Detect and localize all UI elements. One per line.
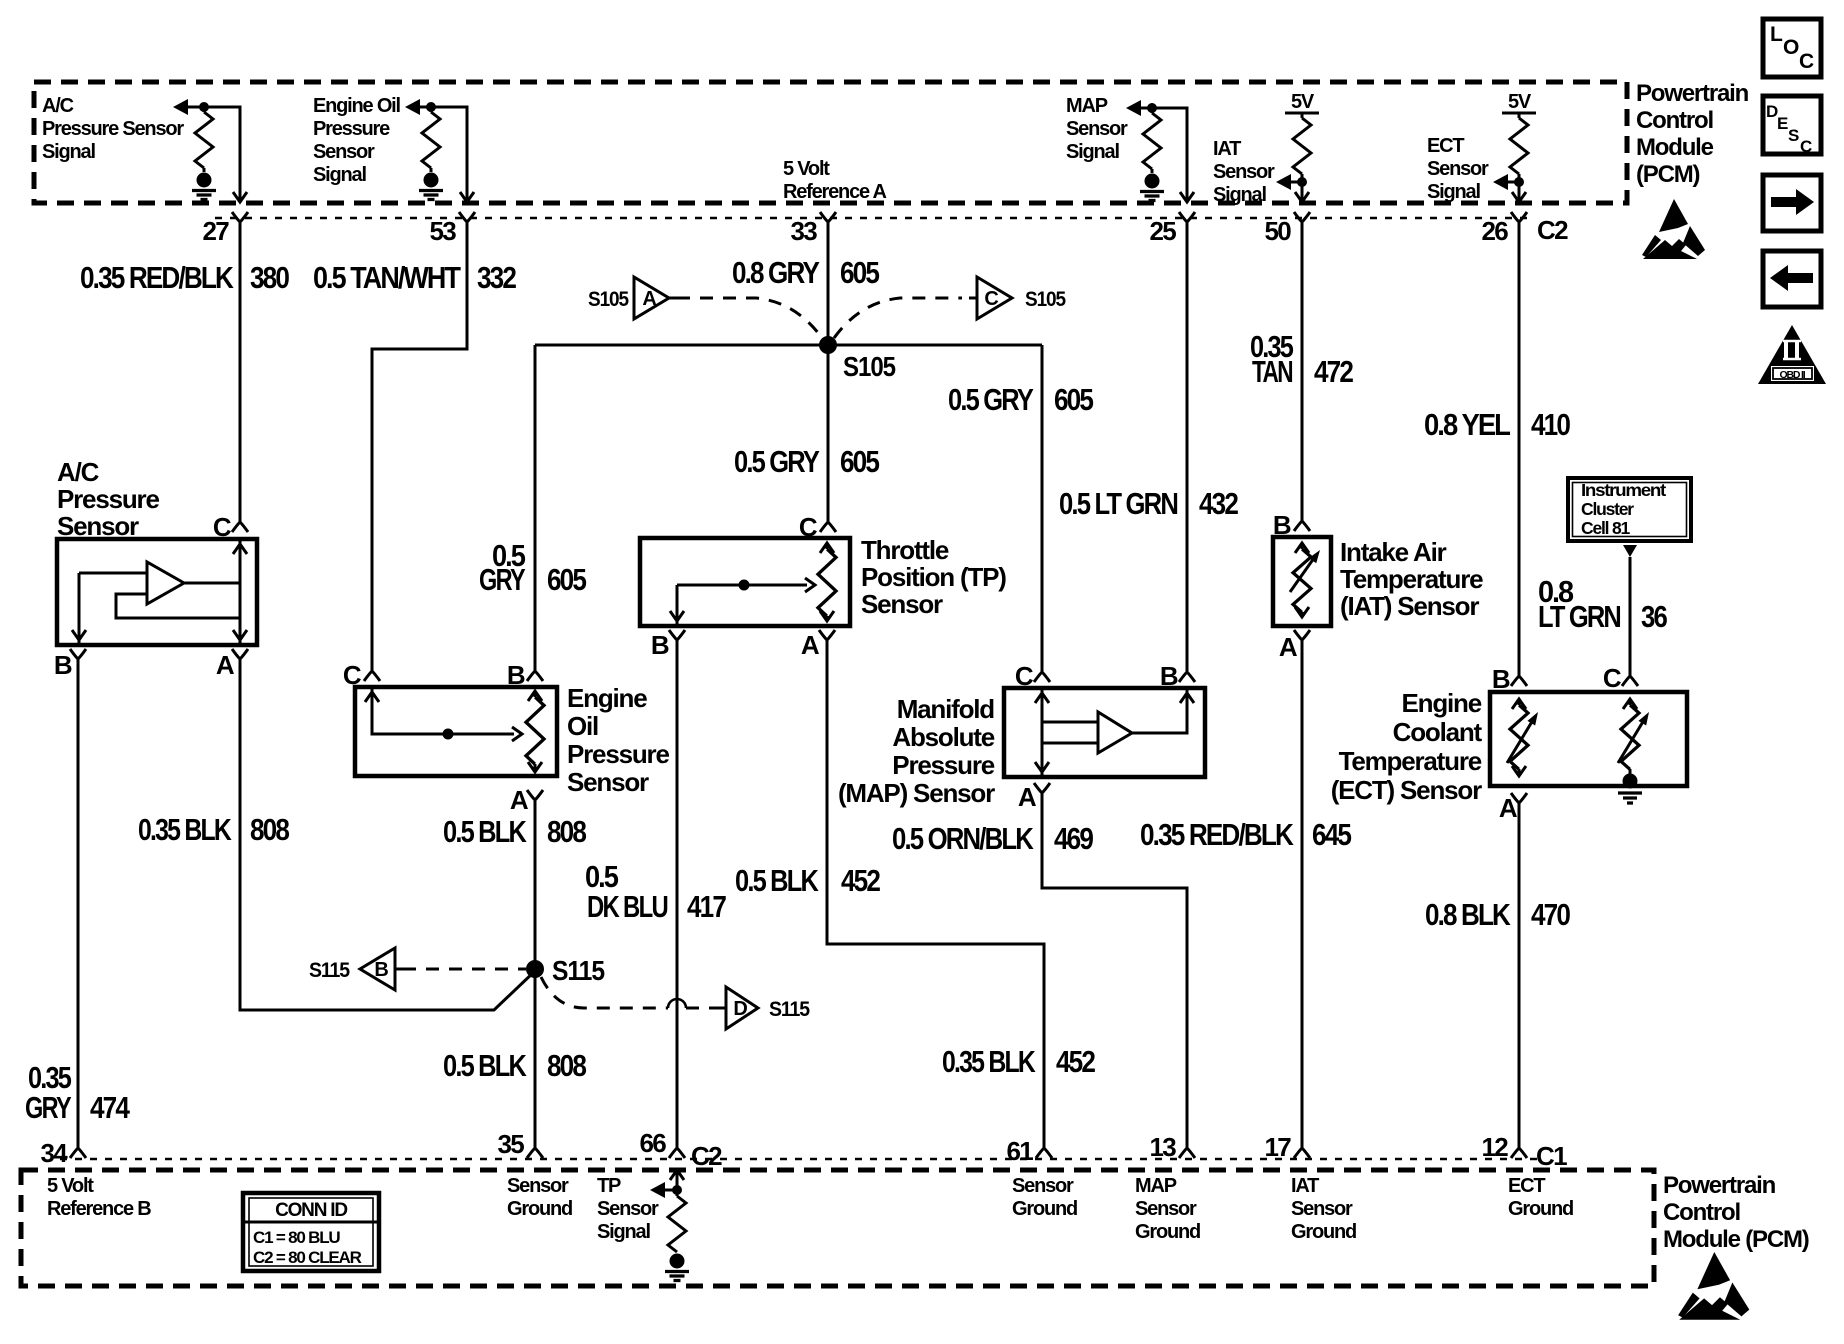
pin C MAP: [1041, 660, 1044, 672]
svg-text:Control: Control: [1636, 107, 1713, 134]
IAT Sensor Signal label: [1213, 138, 1275, 206]
wire op-amp output to B: [1132, 688, 1187, 733]
thermistor IAT: [1295, 543, 1309, 553]
bottom connector dotted line: [60, 1158, 1545, 1161]
svg-text:0.35 RED/BLK: 0.35 RED/BLK: [80, 260, 234, 295]
wire 380 pin27 to A/C C: [239, 235, 242, 512]
node wiper TP: [739, 580, 750, 591]
svg-text:13: 13: [1149, 1132, 1176, 1162]
svg-text:A: A: [642, 288, 656, 310]
svg-text:Cluster: Cluster: [1581, 499, 1634, 519]
svg-text:S115: S115: [552, 955, 605, 986]
resistor TP pulldown: [676, 1190, 679, 1196]
pin 61: [1043, 1135, 1046, 1148]
ground TP: [665, 1254, 689, 1281]
svg-text:Ground: Ground: [1508, 1198, 1573, 1220]
pin 50: [1294, 212, 1310, 236]
wire 452 TP A to pin 61: [827, 654, 1044, 1135]
svg-text:5V: 5V: [1291, 91, 1315, 113]
svg-text:B: B: [374, 959, 388, 981]
svg-text:Absolute: Absolute: [892, 722, 994, 752]
svg-text:0.5 GRY: 0.5 GRY: [948, 382, 1034, 417]
svg-text:Signal: Signal: [597, 1221, 650, 1243]
resistor ECT: [1518, 113, 1521, 118]
svg-text:GRY: GRY: [479, 562, 526, 597]
wire S105 right branch to MAP C: [1041, 345, 1044, 660]
pin C TP: [827, 510, 830, 522]
svg-text:50: 50: [1264, 216, 1291, 246]
svg-text:61: 61: [1006, 1136, 1033, 1166]
pin A IAT: [1294, 630, 1310, 654]
svg-text:A: A: [510, 785, 529, 815]
svg-text:Pressure: Pressure: [892, 750, 994, 780]
svg-text:Ground: Ground: [1291, 1221, 1356, 1243]
svg-text:432: 432: [1199, 486, 1238, 521]
node junction ECT: [1514, 177, 1524, 187]
svg-text:0.8 YEL: 0.8 YEL: [1424, 407, 1510, 442]
Engine Oil signal arrow: [405, 99, 420, 115]
svg-text:469: 469: [1054, 821, 1094, 856]
dashed link A to S105: [677, 298, 822, 338]
svg-text:ECT: ECT: [1427, 135, 1464, 157]
svg-text:410: 410: [1531, 407, 1570, 442]
svg-text:27: 27: [202, 216, 229, 246]
svg-text:472: 472: [1314, 354, 1353, 389]
svg-text:Engine: Engine: [1402, 688, 1482, 718]
wire 474 A/C B to pin 34: [77, 672, 80, 1135]
splice out triangle A S105: [588, 277, 677, 319]
svg-text:MAP: MAP: [1135, 1175, 1177, 1197]
svg-text:Sensor: Sensor: [313, 141, 375, 163]
svg-text:Powertrain: Powertrain: [1636, 80, 1749, 107]
svg-text:35: 35: [497, 1129, 524, 1159]
svg-text:O: O: [1783, 36, 1799, 59]
splice out triangle C S105: [969, 277, 1066, 319]
svg-text:645: 645: [1312, 817, 1352, 852]
wire 645 IAT A to pin 17: [1301, 654, 1304, 1135]
svg-text:Sensor: Sensor: [861, 589, 943, 619]
pin B EO: [534, 659, 537, 671]
svg-text:808: 808: [547, 1048, 587, 1083]
svg-text:C2: C2: [1537, 215, 1568, 245]
ground MAP: [1140, 174, 1164, 201]
svg-text:470: 470: [1531, 897, 1570, 932]
svg-text:(ECT) Sensor: (ECT) Sensor: [1331, 775, 1482, 805]
svg-text:B: B: [54, 650, 72, 680]
wire EO signal internal: [418, 107, 467, 201]
wire 410 pin26 to ECT B: [1518, 235, 1521, 664]
pin B MAP: [1186, 660, 1189, 672]
svg-text:S105: S105: [588, 288, 629, 311]
svg-text:(MAP) Sensor: (MAP) Sensor: [838, 778, 995, 808]
splice out triangle D S115: [717, 987, 810, 1029]
svg-text:Sensor: Sensor: [1427, 158, 1489, 180]
svg-text:A/C: A/C: [57, 457, 100, 487]
svg-text:0.35 BLK: 0.35 BLK: [942, 1044, 1036, 1079]
svg-text:Sensor: Sensor: [1291, 1198, 1353, 1220]
TP Sensor Signal label: [597, 1175, 659, 1243]
svg-text:605: 605: [1054, 382, 1094, 417]
svg-text:Cell 81: Cell 81: [1581, 518, 1630, 538]
svg-text:Instrument: Instrument: [1581, 480, 1666, 500]
pin 35: [534, 1135, 537, 1148]
pin B A/C: [70, 649, 86, 673]
svg-text:CONN ID: CONN ID: [275, 1200, 347, 1221]
svg-text:Engine Oil: Engine Oil: [313, 95, 401, 117]
svg-text:TP: TP: [597, 1175, 621, 1197]
svg-text:Ground: Ground: [1135, 1221, 1200, 1243]
dashed link S105 to C: [834, 298, 962, 338]
MAP Sensor Ground label: [1135, 1175, 1200, 1243]
svg-text:B: B: [1160, 661, 1178, 691]
svg-text:0.35 RED/BLK: 0.35 RED/BLK: [1140, 817, 1294, 852]
wire IAT to pin 50: [1301, 182, 1304, 201]
svg-text:Sensor: Sensor: [1213, 161, 1275, 183]
wire ECT to pin 26: [1518, 182, 1521, 201]
svg-text:MAP: MAP: [1066, 95, 1108, 117]
svg-text:Pressure: Pressure: [57, 484, 159, 514]
svg-text:452: 452: [841, 863, 880, 898]
DESC icon box: [1763, 96, 1821, 156]
op-amp A/C: [147, 562, 184, 604]
svg-text:Pressure Sensor: Pressure Sensor: [42, 118, 184, 140]
arrow out pin 25: [1180, 192, 1194, 202]
wire B internal rail: [78, 573, 81, 645]
arrow from instrument cluster: [1623, 545, 1637, 557]
thermistor ECT C: [1623, 699, 1637, 709]
pin A MAP: [1034, 783, 1050, 807]
dashed link S115 to D: [541, 977, 668, 1008]
ECT Sensor Signal label: [1427, 135, 1489, 203]
wire 470 ECT A to pin 12: [1518, 817, 1521, 1135]
node wiper EO: [443, 729, 454, 740]
Instrument Cluster Cell 81 box: [1568, 478, 1691, 541]
arrow out pin 26: [1512, 192, 1526, 202]
pin A TP: [819, 630, 835, 654]
arrow out pin 50: [1295, 192, 1309, 202]
svg-text:C: C: [1800, 137, 1812, 156]
CONN ID table: [243, 1193, 379, 1271]
ECT Ground label: [1508, 1175, 1573, 1220]
svg-text:Temperature: Temperature: [1340, 564, 1483, 594]
resistor MAP pullup: [1151, 108, 1154, 113]
PCM bottom dashed box: [21, 1170, 1654, 1286]
wire op-amp inputs: [1042, 722, 1098, 743]
OBD II icon triangle: [1758, 325, 1826, 384]
ESD symbol top: [1642, 199, 1705, 259]
svg-text:0.8 BLK: 0.8 BLK: [1425, 897, 1511, 932]
svg-text:Engine: Engine: [567, 683, 647, 713]
svg-text:33: 33: [790, 216, 817, 246]
Engine Oil Pressure Sensor Signal label: [313, 95, 401, 186]
svg-text:C: C: [343, 660, 362, 690]
svg-text:S115: S115: [309, 959, 350, 982]
svg-text:12: 12: [1481, 1132, 1508, 1162]
resistor EO pullup: [430, 107, 433, 112]
Engine Oil sensor box: [355, 687, 557, 776]
svg-text:Sensor: Sensor: [597, 1198, 659, 1220]
node junction EO: [426, 102, 436, 112]
wire 472 pin50 to IAT B: [1301, 235, 1304, 509]
5 Volt Reference A label: [783, 158, 887, 203]
ECT signal arrow: [1507, 181, 1519, 184]
pin 17: [1301, 1135, 1304, 1148]
svg-text:Module (PCM): Module (PCM): [1663, 1226, 1809, 1253]
svg-text:605: 605: [840, 444, 880, 479]
splice out triangle B S115: [309, 948, 403, 990]
resistor IAT: [1301, 113, 1304, 118]
pin B TP: [669, 630, 685, 654]
svg-text:Signal: Signal: [1213, 184, 1266, 206]
A/C internal output rail: [239, 539, 242, 645]
svg-text:17: 17: [1264, 1132, 1291, 1162]
svg-text:Sensor: Sensor: [57, 511, 139, 541]
wire 332 pin53 to EO C: [372, 235, 467, 659]
svg-text:66: 66: [639, 1128, 666, 1158]
svg-text:Temperature: Temperature: [1339, 746, 1482, 776]
svg-text:Position (TP): Position (TP): [861, 562, 1006, 592]
wire S105 down to TP C: [827, 345, 830, 510]
pin 12 / connector C1: [1518, 1135, 1521, 1148]
svg-text:A: A: [1499, 793, 1518, 823]
svg-text:808: 808: [250, 812, 290, 847]
splice S105: [819, 336, 837, 354]
svg-text:Sensor: Sensor: [1066, 118, 1128, 140]
svg-text:C: C: [1799, 50, 1814, 73]
svg-text:Control: Control: [1663, 1199, 1740, 1226]
svg-text:0.5 BLK: 0.5 BLK: [443, 1048, 527, 1083]
svg-text:26: 26: [1481, 216, 1508, 246]
pin A EO: [527, 790, 543, 814]
pin 33: [820, 212, 836, 236]
svg-text:C2: C2: [691, 1141, 722, 1171]
pin C A/C: [239, 512, 242, 522]
svg-text:C: C: [1603, 663, 1622, 693]
PCM top label: [1636, 80, 1749, 188]
pin 27: [232, 212, 248, 236]
IAT signal arrow: [1290, 181, 1302, 184]
svg-text:B: B: [651, 630, 669, 660]
pin 26 / connector C2: [1511, 212, 1527, 236]
svg-text:IAT: IAT: [1213, 138, 1241, 160]
svg-text:S105: S105: [843, 351, 896, 382]
dashed link B to S115: [403, 968, 526, 971]
svg-text:A: A: [1279, 632, 1298, 662]
wire A/C signal internal: [186, 107, 240, 201]
wire upper input from B: [79, 572, 147, 575]
node junction TP signal: [672, 1185, 682, 1195]
svg-text:C: C: [213, 512, 232, 542]
wire lower input jog: [116, 594, 240, 618]
TP signal arrow: [650, 1182, 665, 1198]
pin 34: [77, 1135, 80, 1148]
node junction A/C: [199, 102, 209, 112]
svg-text:C: C: [1015, 661, 1034, 691]
svg-text:A: A: [801, 630, 820, 660]
svg-text:Sensor: Sensor: [567, 767, 649, 797]
wire S105 horizontal bus: [535, 344, 1042, 347]
A/C signal arrow: [173, 99, 188, 115]
svg-text:Coolant: Coolant: [1393, 717, 1483, 747]
svg-text:605: 605: [547, 562, 587, 597]
svg-text:C: C: [799, 512, 818, 542]
pin C ECT: [1629, 557, 1632, 676]
svg-text:Ground: Ground: [507, 1198, 572, 1220]
svg-text:0.5 GRY: 0.5 GRY: [734, 444, 820, 479]
wire 469 MAP A to pin 13: [1042, 793, 1187, 1135]
MAP Sensor Signal label: [1066, 95, 1128, 163]
Engine Oil Pressure Sensor label: [567, 683, 669, 797]
svg-text:5V: 5V: [1508, 91, 1532, 113]
svg-text:474: 474: [90, 1090, 130, 1125]
svg-text:LT GRN: LT GRN: [1538, 599, 1621, 634]
svg-text:Module: Module: [1636, 134, 1714, 161]
thermistor ECT B: [1512, 699, 1526, 709]
wire 808 EO A to S115: [534, 800, 537, 1135]
svg-text:C1 = 80 BLU: C1 = 80 BLU: [253, 1228, 340, 1247]
svg-text:0.35 BLK: 0.35 BLK: [138, 812, 232, 847]
svg-text:B: B: [1492, 664, 1510, 694]
arrow in pin 66: [670, 1170, 684, 1180]
A/C sensor box: [57, 539, 257, 645]
svg-text:25: 25: [1149, 216, 1176, 246]
svg-text:5 Volt: 5 Volt: [783, 158, 830, 180]
svg-text:Oil: Oil: [567, 711, 598, 741]
top connector dotted line: [215, 217, 1535, 220]
svg-text:S115: S115: [769, 998, 810, 1021]
pin B ECT: [1518, 664, 1521, 676]
svg-text:36: 36: [1641, 599, 1668, 634]
wire MAP signal internal: [1139, 108, 1187, 201]
svg-text:Sensor: Sensor: [507, 1175, 569, 1197]
svg-text:Throttle: Throttle: [861, 535, 949, 565]
svg-text:(IAT) Sensor: (IAT) Sensor: [1340, 591, 1479, 621]
svg-text:0.5 BLK: 0.5 BLK: [735, 863, 819, 898]
pin A ECT: [1511, 793, 1527, 817]
svg-text:S105: S105: [1025, 288, 1066, 311]
svg-text:D: D: [733, 998, 747, 1020]
pin A A/C: [232, 649, 248, 673]
svg-text:Ground: Ground: [1012, 1198, 1077, 1220]
svg-text:B: B: [507, 660, 525, 690]
svg-text:Reference B: Reference B: [47, 1198, 151, 1220]
node junction IAT: [1297, 177, 1307, 187]
ground ECT case: [1618, 793, 1642, 803]
ground A/C: [192, 173, 216, 200]
svg-text:808: 808: [547, 814, 587, 849]
op-amp MAP: [1098, 712, 1132, 753]
pin C EO: [364, 657, 380, 681]
Sensor Ground label pin61: [1012, 1175, 1077, 1220]
svg-text:ECT: ECT: [1508, 1175, 1545, 1197]
svg-text:0.8 GRY: 0.8 GRY: [732, 255, 820, 290]
Manifold Absolute Pressure (MAP) Sensor label: [838, 694, 995, 808]
wire 417 TP B to pin 66: [676, 654, 679, 1135]
wire 432 pin25 to MAP B: [1186, 235, 1189, 660]
TP sensor box: [640, 538, 850, 626]
TP internal wiper rail: [677, 584, 807, 587]
LOC icon box: [1763, 19, 1821, 77]
Engine Coolant Temperature (ECT) Sensor label: [1331, 688, 1483, 805]
svg-text:Sensor: Sensor: [1135, 1198, 1197, 1220]
svg-text:Pressure: Pressure: [313, 118, 390, 140]
MAP signal arrow: [1126, 100, 1141, 116]
svg-text:Signal: Signal: [313, 164, 366, 186]
ESD symbol bottom: [1678, 1252, 1749, 1320]
svg-text:DK BLU: DK BLU: [587, 889, 668, 924]
svg-text:332: 332: [477, 260, 516, 295]
potentiometer EO: [528, 691, 542, 701]
resistor A/C pullup: [203, 107, 206, 112]
splice S115: [526, 960, 544, 978]
svg-text:417: 417: [687, 889, 726, 924]
svg-text:C2 = 80 CLEAR: C2 = 80 CLEAR: [253, 1248, 362, 1267]
svg-text:53: 53: [429, 216, 456, 246]
MAP sensor box: [1004, 688, 1205, 777]
svg-text:Intake Air: Intake Air: [1340, 537, 1447, 567]
svg-text:L: L: [1770, 23, 1783, 46]
wire S105 left branch to EO B: [534, 345, 537, 659]
Intake Air Temperature (IAT) Sensor label: [1340, 537, 1483, 621]
pin 25: [1179, 212, 1195, 236]
svg-text:0.5 BLK: 0.5 BLK: [443, 814, 527, 849]
svg-text:380: 380: [250, 260, 289, 295]
A/C Pressure Sensor label: [57, 457, 159, 541]
svg-text:A: A: [1018, 782, 1037, 812]
wire 808 A/C A to S115: [240, 672, 535, 1010]
pin 66 / connector C2: [676, 1135, 679, 1148]
svg-text:Signal: Signal: [1066, 141, 1119, 163]
svg-text:C1: C1: [1536, 1141, 1567, 1171]
arrow out pin 27: [233, 192, 247, 202]
svg-text:Reference A: Reference A: [783, 181, 887, 203]
IAT sensor box: [1273, 537, 1331, 626]
ECT sensor box: [1490, 692, 1687, 786]
svg-text:452: 452: [1056, 1044, 1095, 1079]
wire 605 pin33 to S105: [827, 235, 830, 345]
Throttle Position (TP) Sensor label: [861, 535, 1006, 619]
pin 53: [459, 212, 475, 236]
wire op-amp output: [184, 582, 240, 585]
forward arrow icon box: [1763, 175, 1821, 231]
svg-text:0.5 ORN/BLK: 0.5 ORN/BLK: [892, 821, 1034, 856]
svg-text:A: A: [216, 650, 235, 680]
back arrow icon box: [1763, 251, 1821, 307]
EO internal wiper rail: [372, 687, 514, 734]
svg-text:IAT: IAT: [1291, 1175, 1319, 1197]
MAP internal input rail: [1041, 688, 1044, 777]
svg-text:(PCM): (PCM): [1636, 161, 1700, 188]
svg-text:Sensor: Sensor: [1012, 1175, 1074, 1197]
svg-text:5 Volt: 5 Volt: [47, 1175, 94, 1197]
5 Volt Reference B label: [47, 1175, 151, 1220]
svg-text:B: B: [1273, 510, 1291, 540]
svg-text:Signal: Signal: [1427, 181, 1480, 203]
wire TP signal internal: [664, 1170, 677, 1190]
svg-text:C: C: [984, 288, 998, 310]
svg-text:34: 34: [40, 1138, 68, 1168]
node junction MAP: [1147, 103, 1157, 113]
svg-text:Pressure: Pressure: [567, 739, 669, 769]
svg-text:0.5 TAN/WHT: 0.5 TAN/WHT: [313, 260, 461, 295]
Sensor Ground label pin35: [507, 1175, 572, 1220]
pin 13: [1186, 1135, 1189, 1148]
svg-text:Signal: Signal: [42, 141, 95, 163]
svg-text:TAN: TAN: [1252, 354, 1293, 389]
node ECT C to case ground: [1623, 774, 1638, 789]
PCM bottom label: [1663, 1172, 1809, 1253]
arrow out pin 53: [460, 192, 474, 202]
